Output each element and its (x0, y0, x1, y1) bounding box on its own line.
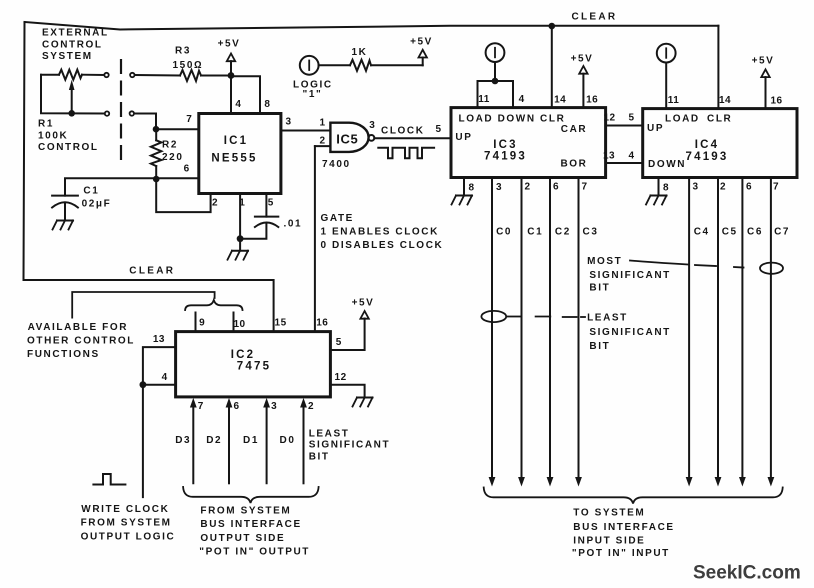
svg-text:CAR: CAR (561, 124, 587, 135)
svg-text:FUNCTIONS: FUNCTIONS (27, 349, 100, 360)
svg-text:UP: UP (647, 123, 664, 134)
svg-text:8: 8 (469, 183, 475, 194)
svg-text:9: 9 (199, 318, 205, 329)
wire pin 1 to ground (239, 194, 241, 239)
wire outer left / CLEAR to IC2 pin 15 (24, 22, 274, 332)
label R1 100K CONTROL (38, 119, 99, 153)
svg-text:6: 6 (553, 182, 559, 193)
wire CAR to UP (606, 125, 643, 127)
svg-text:CLR: CLR (707, 114, 732, 125)
power +5V (R3 node) (218, 39, 241, 76)
node pin1 ground junction (237, 235, 244, 242)
svg-text:16: 16 (586, 95, 598, 106)
nand gate IC5 (319, 118, 375, 171)
svg-text:5: 5 (435, 124, 441, 135)
svg-text:2: 2 (308, 401, 314, 412)
label least significant bit (left) (309, 428, 391, 462)
svg-text:CONTROL: CONTROL (42, 40, 103, 51)
svg-text:WRITE CLOCK: WRITE CLOCK (81, 504, 169, 515)
svg-text:3: 3 (693, 182, 699, 193)
svg-text:7: 7 (773, 182, 779, 193)
svg-text:C2: C2 (555, 227, 571, 238)
wire IC2 pin 4 (143, 384, 176, 386)
svg-text:0 DISABLES CLOCK: 0 DISABLES CLOCK (321, 240, 444, 251)
wire write clock input (142, 385, 144, 497)
svg-text:6: 6 (234, 401, 240, 412)
svg-text:CONTROL: CONTROL (38, 142, 99, 153)
ground (C1) (53, 221, 74, 230)
svg-text:8: 8 (264, 99, 270, 110)
label GATE annotation (321, 213, 444, 251)
ground (IC2 pin 12) (353, 398, 373, 407)
svg-text:AVAILABLE FOR: AVAILABLE FOR (28, 322, 128, 333)
wire gate pin2 to IC2 pin 16 (314, 146, 316, 332)
label external control system (42, 28, 109, 63)
ground (IC4 pin 8) (646, 178, 667, 205)
ground (IC3 pin 8) (452, 178, 473, 205)
svg-text:3: 3 (271, 401, 277, 412)
svg-text:MOST: MOST (587, 256, 622, 267)
capacitor C1 (52, 178, 156, 219)
svg-text:LEAST: LEAST (309, 428, 350, 439)
brace from system bus (183, 487, 319, 503)
wire to IC1 pin 6 (156, 177, 199, 179)
data line D1 (243, 398, 270, 483)
resistor 1K (319, 47, 423, 71)
capacitor .01 (pin 5) (240, 194, 302, 239)
svg-text:R2: R2 (162, 140, 178, 151)
svg-text:EXTERNAL: EXTERNAL (42, 28, 109, 39)
svg-text:IC1: IC1 (224, 135, 249, 147)
data line D2 (206, 398, 232, 483)
bus line C0 (489, 178, 512, 487)
IC1 NE555 (184, 99, 292, 209)
wire IC2 pin 12 to ground (330, 385, 364, 397)
svg-text:4: 4 (628, 151, 634, 162)
svg-text:+5V: +5V (571, 54, 594, 65)
wire CLEAR to IC4 pin 14 (717, 26, 719, 109)
svg-text:+5V: +5V (410, 37, 433, 48)
svg-text:2: 2 (212, 198, 218, 209)
svg-text:12: 12 (603, 113, 615, 124)
svg-text:LOAD: LOAD (665, 114, 700, 125)
node R1 wiper junction (68, 110, 75, 117)
logic 1 source (gate) (293, 56, 333, 100)
svg-text:100K: 100K (38, 131, 68, 142)
svg-text:BUS INTERFACE: BUS INTERFACE (200, 519, 301, 530)
clock waveform symbol (378, 148, 434, 159)
svg-text:C1: C1 (83, 186, 99, 197)
wire pin 2 loop (156, 179, 210, 212)
svg-text:+5V: +5V (218, 39, 241, 50)
node CLEAR junction (549, 23, 556, 30)
svg-text:OUTPUT SIDE: OUTPUT SIDE (200, 533, 285, 544)
node write clock junction (140, 381, 147, 388)
net label CLEAR (lower) (129, 266, 175, 277)
wire IC2 pin 10 stub (233, 313, 235, 332)
svg-text:C4: C4 (694, 227, 710, 238)
svg-text:220: 220 (162, 152, 184, 163)
svg-text:14: 14 (554, 95, 566, 106)
node 6/R2/C1 junction (153, 176, 160, 183)
svg-text:BIT: BIT (589, 283, 610, 294)
bus line C4 (686, 178, 710, 487)
wire clock output (374, 126, 451, 139)
wire CLEAR to IC3 pin 14 (551, 26, 553, 108)
bus line C1 (518, 178, 543, 487)
terminal circles circuit side (130, 73, 135, 116)
logic 1 source (IC3 pins 11/4) (478, 43, 514, 107)
svg-text:TO SYSTEM: TO SYSTEM (573, 508, 645, 519)
svg-text:IC3: IC3 (493, 139, 518, 151)
label available for other control functions (27, 322, 135, 360)
pulse waveform symbol (93, 474, 125, 485)
IC2 7475 (153, 318, 347, 412)
ground (IC1 pin 1) (228, 239, 249, 260)
bus line C6 (739, 178, 763, 487)
svg-text:BIT: BIT (309, 452, 330, 463)
svg-text:11: 11 (668, 95, 680, 106)
wire IC1 pin3 to gate input 1 (281, 130, 331, 132)
svg-text:SIGNIFICANT: SIGNIFICANT (589, 270, 671, 281)
node R3/+5V junction (228, 72, 235, 79)
svg-text:C1: C1 (527, 227, 543, 238)
label from system bus interface (199, 505, 310, 557)
watermark SeekIC.com (693, 563, 801, 584)
svg-text:"POT IN" OUTPUT: "POT IN" OUTPUT (199, 547, 310, 558)
svg-text:D1: D1 (243, 435, 259, 446)
brace over pins 9 10 (185, 300, 242, 310)
svg-text:LEAST: LEAST (587, 312, 628, 323)
svg-text:5: 5 (336, 337, 342, 348)
svg-text:D3: D3 (175, 435, 191, 446)
wire CLEAR top bus (25, 22, 719, 30)
node bracket junction (IC3) (492, 78, 499, 85)
data line D0 (280, 398, 307, 483)
svg-text:3: 3 (369, 120, 375, 131)
resistor R2 (151, 129, 184, 179)
svg-text:OUTPUT LOGIC: OUTPUT LOGIC (81, 532, 176, 543)
svg-text:+5V: +5V (352, 298, 375, 309)
svg-text:5: 5 (628, 113, 634, 124)
IC3 74193 (435, 94, 634, 194)
bus line C2 (547, 178, 571, 487)
pointer line available functions (72, 292, 214, 318)
svg-text:IC5: IC5 (336, 131, 358, 146)
svg-text:SYSTEM: SYSTEM (42, 51, 93, 62)
svg-text:3: 3 (496, 182, 502, 193)
svg-text:D0: D0 (280, 435, 296, 446)
label write clock (81, 504, 176, 543)
power +5V (IC2 pin 5) (330, 298, 374, 351)
potentiometer R1 (41, 70, 105, 114)
wire IC2 pin 9 stub (195, 313, 197, 332)
svg-text:14: 14 (719, 95, 731, 106)
svg-text:6: 6 (746, 182, 752, 193)
svg-text:7: 7 (186, 114, 192, 125)
svg-text:8: 8 (663, 183, 669, 194)
svg-text:2: 2 (525, 182, 531, 193)
svg-text:7475: 7475 (237, 361, 271, 373)
dashed isolation line (120, 59, 122, 161)
svg-text:UP: UP (455, 132, 472, 143)
svg-text:D2: D2 (206, 435, 222, 446)
svg-text:1: 1 (319, 118, 325, 129)
wire pin 7 from terminal (134, 114, 198, 130)
svg-text:SIGNIFICANT: SIGNIFICANT (309, 440, 391, 451)
svg-text:.01: .01 (284, 219, 303, 230)
svg-text:BUS INTERFACE: BUS INTERFACE (573, 522, 674, 533)
svg-text:6: 6 (184, 164, 190, 175)
svg-text:BIT: BIT (589, 341, 610, 352)
power +5V (IC3 pin 16) (571, 54, 594, 108)
label to system bus interface (572, 508, 675, 559)
label least significant bit (right) (481, 311, 671, 352)
svg-text:2: 2 (319, 136, 325, 147)
svg-text:R1: R1 (38, 119, 54, 130)
wire BOR to DOWN (606, 162, 643, 164)
svg-text:15: 15 (275, 318, 287, 329)
bus line C7 (768, 178, 791, 487)
svg-text:IC2: IC2 (231, 349, 256, 361)
svg-text:74193: 74193 (484, 151, 527, 163)
svg-text:1K: 1K (352, 47, 368, 58)
label most significant bit (587, 256, 783, 294)
brace to system bus (484, 488, 783, 504)
svg-text:CLEAR: CLEAR (129, 266, 175, 277)
svg-text:R3: R3 (175, 46, 191, 57)
svg-text:C0: C0 (496, 227, 512, 238)
wire junction to IC1 pin 4 (230, 76, 232, 114)
svg-text:4: 4 (162, 372, 168, 383)
svg-text:16: 16 (770, 96, 782, 107)
svg-text:IC4: IC4 (695, 139, 720, 151)
svg-text:11: 11 (478, 94, 490, 105)
svg-text:7: 7 (582, 182, 588, 193)
power +5V (IC4 pin 16) (752, 56, 775, 109)
wire IC2 pin 13 (143, 347, 176, 385)
svg-text:C5: C5 (722, 227, 738, 238)
svg-text:C6: C6 (747, 227, 763, 238)
power +5V (1K) (410, 37, 433, 66)
bus line C3 (575, 178, 598, 487)
resistor R3 (135, 46, 231, 82)
svg-text:4: 4 (519, 94, 525, 105)
svg-text:LOAD DOWN CLR: LOAD DOWN CLR (459, 114, 566, 125)
data line D3 (175, 398, 197, 483)
net label CLEAR (top) (572, 12, 618, 23)
svg-text:BOR: BOR (560, 159, 587, 170)
bus line C5 (715, 178, 738, 487)
svg-text:"1": "1" (303, 89, 323, 100)
svg-text:74193: 74193 (686, 151, 729, 163)
logic 1 source (IC4 pin 11) (657, 44, 676, 109)
svg-text:GATE: GATE (321, 213, 354, 224)
svg-text:02μF: 02μF (82, 199, 112, 210)
svg-text:C7: C7 (774, 227, 790, 238)
terminal circles external side (104, 73, 109, 116)
svg-text:2: 2 (720, 182, 726, 193)
svg-text:CLEAR: CLEAR (572, 12, 618, 23)
svg-text:13: 13 (153, 334, 165, 345)
svg-text:FROM SYSTEM: FROM SYSTEM (81, 518, 172, 529)
svg-text:7: 7 (198, 401, 204, 412)
svg-text:150Ω: 150Ω (173, 60, 204, 71)
svg-text:FROM SYSTEM: FROM SYSTEM (200, 505, 291, 516)
svg-text:"POT IN" INPUT: "POT IN" INPUT (572, 548, 670, 559)
svg-text:7400: 7400 (322, 159, 351, 170)
svg-text:5: 5 (268, 198, 274, 209)
svg-text:DOWN: DOWN (648, 159, 686, 170)
node pin7/R2 junction (153, 126, 160, 133)
svg-text:13: 13 (603, 151, 615, 162)
wire gate input 2 (315, 145, 331, 147)
IC4 74193 (643, 95, 797, 194)
svg-text:3: 3 (285, 117, 291, 128)
svg-text:+5V: +5V (752, 56, 775, 67)
svg-text:NE555: NE555 (211, 153, 257, 165)
svg-text:10: 10 (233, 319, 245, 330)
svg-text:C3: C3 (583, 227, 599, 238)
svg-text:OTHER CONTROL: OTHER CONTROL (27, 336, 135, 347)
svg-text:12: 12 (335, 372, 347, 383)
wire junction to IC1 pin 8 (231, 76, 260, 113)
svg-text:INPUT SIDE: INPUT SIDE (573, 536, 645, 547)
svg-text:SIGNIFICANT: SIGNIFICANT (589, 327, 671, 338)
svg-text:CLOCK: CLOCK (381, 126, 425, 137)
svg-text:SeekIC.com: SeekIC.com (693, 563, 801, 584)
svg-text:4: 4 (235, 99, 241, 110)
svg-text:1 ENABLES CLOCK: 1 ENABLES CLOCK (321, 227, 439, 238)
svg-text:16: 16 (316, 318, 328, 329)
